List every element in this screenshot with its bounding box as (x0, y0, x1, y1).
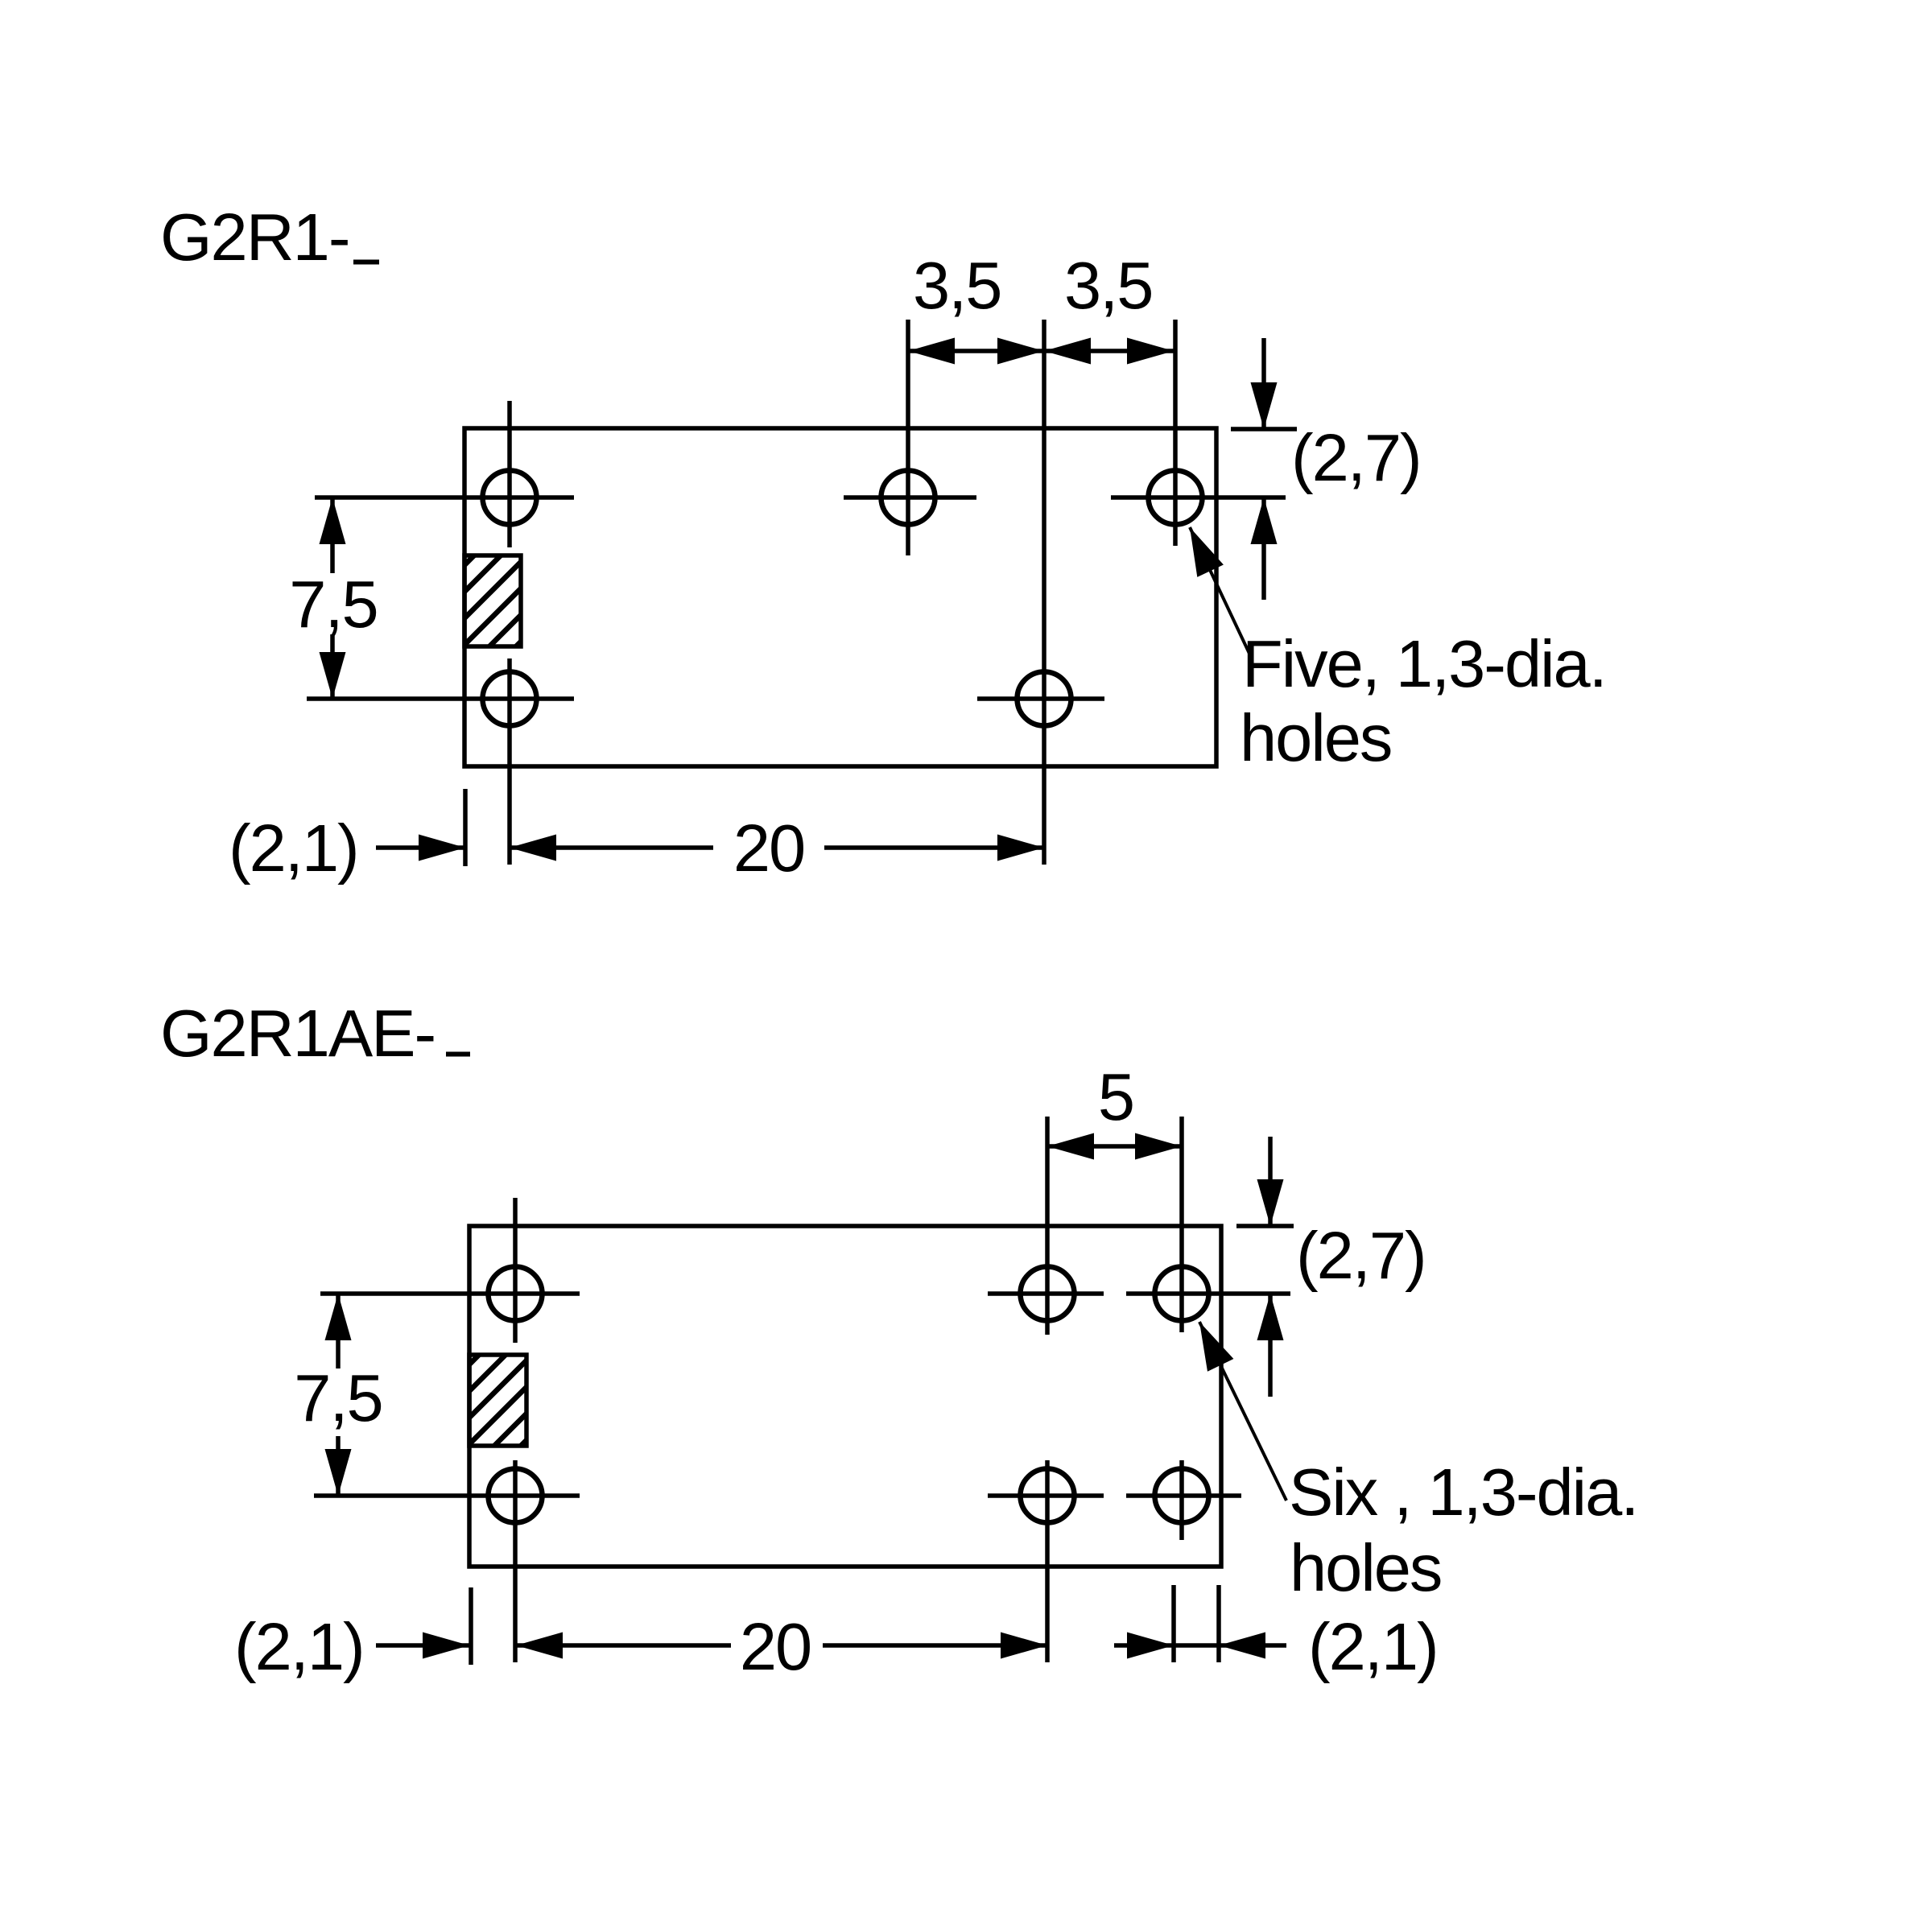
dimension 20 G2R1 (510, 811, 1044, 885)
hole A1 top-left G2R1 (315, 401, 574, 547)
dimension 7,5 G2R1 (289, 497, 377, 699)
svg-text:(2,7): (2,7) (1296, 1218, 1426, 1293)
svg-text:3,5: 3,5 (913, 248, 1001, 323)
hole A2 top-middle G2R1 (844, 320, 976, 555)
svg-text:G2R1-: G2R1- (160, 200, 349, 275)
dimension (2,1) right G2R1AE (1114, 1585, 1438, 1684)
dimension 3,5 left G2R1 (908, 248, 1044, 365)
hole B3 top-right G2R1AE (1126, 1117, 1290, 1332)
svg-text:5: 5 (1098, 1059, 1133, 1134)
hole B5 bottom-middle G2R1AE (988, 1460, 1104, 1662)
dimension 3,5 right G2R1 (1044, 248, 1174, 365)
dimension 5 G2R1AE (1047, 1059, 1182, 1160)
svg-text:Six , 1,3-dia.: Six , 1,3-dia. (1289, 1455, 1637, 1529)
hole B1 top-left G2R1AE (320, 1198, 580, 1343)
hole B6 bottom-right G2R1AE (1126, 1460, 1241, 1540)
hole A4 bottom-left G2R1 (307, 658, 574, 865)
dimension (2,1) left G2R1AE (234, 1587, 471, 1684)
dimension (2,7) G2R1AE (1236, 1137, 1426, 1397)
svg-text:Five, 1,3-dia.: Five, 1,3-dia. (1242, 626, 1606, 701)
hole A3 top-right G2R1 (1111, 320, 1286, 546)
dimension 7,5 G2R1AE (294, 1294, 382, 1496)
svg-text:20: 20 (740, 1609, 811, 1684)
hole B2 top-middle G2R1AE (988, 1117, 1104, 1335)
dimension 20 G2R1AE (516, 1609, 1047, 1684)
dimension (2,1) G2R1 (229, 789, 465, 885)
svg-text:(2,1): (2,1) (234, 1609, 364, 1684)
leader to hole B3 with note Six 1,3-dia. holes (1199, 1322, 1637, 1605)
svg-text:holes: holes (1290, 1530, 1441, 1605)
svg-text:7,5: 7,5 (294, 1360, 382, 1435)
dimension (2,7) G2R1 (1231, 338, 1421, 600)
hole B4 bottom-left G2R1AE (314, 1460, 580, 1662)
svg-text:(2,7): (2,7) (1291, 420, 1421, 495)
svg-text:holes: holes (1240, 700, 1391, 775)
svg-text:G2R1AE-: G2R1AE- (160, 996, 435, 1071)
leader to hole A3 with note Five 1,3-dia. holes (1190, 527, 1606, 775)
relay outline G2R1 (464, 428, 1216, 766)
svg-text:7,5: 7,5 (289, 567, 377, 642)
svg-text:3,5: 3,5 (1064, 248, 1152, 323)
hatch box (coil polarity mark) G2R1 (450, 443, 587, 712)
relay outline G2R1AE (469, 1226, 1221, 1567)
svg-text:(2,1): (2,1) (1308, 1609, 1438, 1684)
svg-text:(2,1): (2,1) (229, 811, 358, 885)
hatch box (coil polarity mark) G2R1AE (455, 1242, 592, 1512)
hole A5 bottom-middle G2R1 (977, 320, 1104, 865)
svg-text:20: 20 (733, 811, 804, 885)
